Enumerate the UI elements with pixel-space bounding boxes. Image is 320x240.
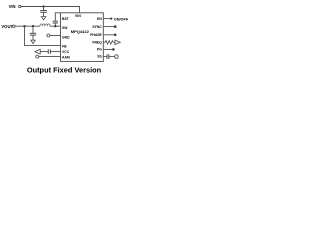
ground output cap [31,40,36,43]
svg-text:EN: EN [97,17,102,21]
capacitor C5 SS [103,54,114,59]
svg-text:VCC: VCC [62,50,70,54]
svg-text:Output Fixed Version: Output Fixed Version [27,65,102,74]
svg-text:VIN: VIN [75,14,81,18]
node PG dot [112,48,115,51]
node junction FB branch [23,25,25,27]
node VIN terminal [9,4,21,9]
capacitor C1 input [40,7,47,17]
wire SW to inductor [50,25,61,27]
wire EN [103,18,111,20]
node EN dot [110,18,112,20]
node VOUT terminal [1,24,15,29]
wire VOUT rail [15,25,40,27]
svg-text:GND: GND [62,35,70,39]
svg-text:AAM: AAM [62,56,70,60]
node junction output cap branch [32,25,34,27]
svg-text:VIN: VIN [9,4,16,9]
inductor L1 [40,24,50,26]
node junction input cap [42,5,44,7]
node SYNC dot [114,25,117,28]
svg-text:VOUT: VOUT [1,24,13,29]
capacitor C2 bootstrap [53,13,61,26]
node AAM terminal [36,55,39,58]
svg-text:MPQ4422: MPQ4422 [71,29,90,34]
wire PG [103,48,112,50]
wire VIN rail top [21,7,80,13]
node junction bootstrap-SW [54,25,56,27]
resistor R1 FREQ [103,41,114,45]
svg-text:BST: BST [62,17,70,21]
svg-text:SYNC: SYNC [92,25,102,29]
svg-text:ON/OFF: ON/OFF [114,17,129,21]
wire AAM [39,56,61,58]
wire GND [50,35,61,37]
node GND terminal [47,34,50,37]
wire SYNC [103,26,114,28]
svg-text:SS: SS [97,55,102,59]
node PHASE dot [114,34,117,37]
svg-text:SW: SW [62,26,68,30]
svg-text:PG: PG [97,48,102,52]
wire FB to VOUT [25,26,61,45]
ground input cap [41,17,46,20]
node FREQ arrow [115,40,120,45]
svg-text:PHASE: PHASE [90,33,102,37]
wire PHASE [103,34,114,36]
svg-text:FREQ: FREQ [92,41,102,45]
svg-text:FB: FB [62,44,67,48]
capacitor C4 VCC [40,49,60,54]
node SS terminal [115,55,119,59]
node VCC arrow [35,49,40,54]
IC U1 MPQ4422 body [61,13,104,62]
capacitor C3 output [30,26,36,40]
